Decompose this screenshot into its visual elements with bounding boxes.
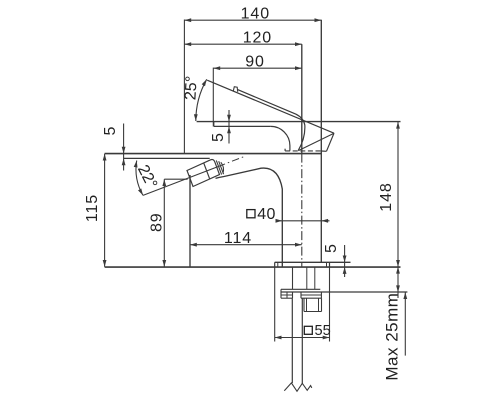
wire body column 120-extension (left edge)	[301, 44, 303, 153]
svg-text:25°: 25°	[182, 75, 200, 100]
dimension square-40 leader	[276, 219, 330, 223]
label Max 25mm	[383, 293, 402, 381]
label 89	[149, 212, 166, 232]
dimension max-25 deck thickness	[396, 267, 400, 298]
svg-text:5: 5	[102, 126, 119, 135]
dimension 148	[396, 122, 400, 267]
label 5 left	[102, 126, 119, 135]
dimension 115	[103, 154, 107, 267]
wire deck bottom / washer underside line	[281, 291, 407, 293]
wire lever-tip extension line y158	[124, 157, 210, 159]
wire spout underside curve	[271, 126, 290, 150]
svg-text:Max 25mm: Max 25mm	[383, 293, 402, 381]
wire base plate outer edges	[275, 262, 330, 267]
wire lever centerline dash-dot extension	[218, 157, 244, 167]
wire body column right edge (140 extension)	[320, 20, 322, 263]
wire lever centerline 22-deg	[143, 167, 218, 196]
wire lower body top edge with rounded corner and right edge	[216, 168, 283, 267]
wire lever bar 25-deg bottom edge	[207, 80, 334, 133]
dimension 5 (upper)	[227, 110, 231, 144]
svg-text:89: 89	[149, 212, 166, 232]
dimension 22-deg arc	[134, 161, 143, 196]
label square 40	[247, 206, 276, 223]
dimension 5 (right, plate height)	[343, 245, 347, 277]
svg-text:140: 140	[241, 6, 270, 23]
wire lever handle divider line	[204, 163, 210, 179]
svg-text:55: 55	[315, 323, 331, 339]
wire mounting nut	[304, 298, 322, 311]
wire lever bar top edge merging into spout trailing edge	[238, 90, 305, 151]
dimension 5 (left)	[122, 124, 126, 171]
label 90	[245, 54, 265, 71]
wire lever neck rings	[216, 160, 223, 174]
wire hose break zigzag	[284, 383, 312, 391]
dimension 120	[184, 42, 301, 46]
wire spout bottom face (hidden dashed) + edge tick	[285, 149, 326, 152]
label 114	[224, 230, 252, 247]
dimension 114	[190, 243, 302, 247]
label 5 upper	[210, 133, 227, 142]
wire lever handle rectangle (22 deg)	[187, 159, 220, 186]
svg-text:120: 120	[243, 30, 272, 47]
label square 55	[304, 323, 330, 339]
label 22 deg	[134, 162, 160, 191]
svg-text:5: 5	[323, 244, 340, 253]
dimension max-25 text leader	[403, 292, 407, 355]
dimension square-55 with extensions	[275, 267, 330, 341]
wire washer front tab	[281, 289, 293, 298]
svg-text:148: 148	[378, 182, 395, 211]
dimension 90 with extension	[213, 66, 301, 126]
label 115	[84, 194, 101, 222]
wire washer right section	[301, 292, 321, 298]
wire body centerline (dash-dot)	[301, 154, 303, 267]
label 140	[241, 6, 270, 23]
wire deck surface line	[105, 266, 401, 268]
svg-text:114: 114	[224, 230, 252, 247]
wire top reference line y122 (148 extension)	[197, 121, 401, 123]
label 25 deg	[182, 75, 200, 100]
dimension 25-deg arc	[194, 79, 207, 121]
dimension 140 with extension	[184, 18, 321, 153]
wire lever bar end notch	[233, 87, 238, 92]
svg-text:40: 40	[257, 206, 275, 223]
wire shank verticals under deck	[293, 267, 315, 289]
wire lever neck end cap	[221, 162, 224, 173]
wire spout tip cut edge	[327, 133, 335, 151]
wire base plate inner ticks	[278, 262, 327, 267]
label 120	[243, 30, 272, 47]
dimension 89 with extension	[162, 179, 187, 267]
wire horseshoe washer top	[281, 288, 320, 290]
svg-text:90: 90	[245, 54, 265, 71]
label 148	[378, 182, 395, 211]
wire baseline of upper view y154	[105, 153, 322, 155]
svg-text:115: 115	[84, 194, 101, 222]
wire supply hose tubes	[292, 298, 302, 383]
wire base plate top	[275, 261, 351, 263]
wire spout tip inner edge	[298, 133, 334, 150]
wire lower body front edge	[189, 175, 191, 267]
wire spout outlet face line +step	[214, 122, 271, 127]
svg-text:5: 5	[210, 133, 227, 142]
label 5 right	[323, 244, 340, 253]
